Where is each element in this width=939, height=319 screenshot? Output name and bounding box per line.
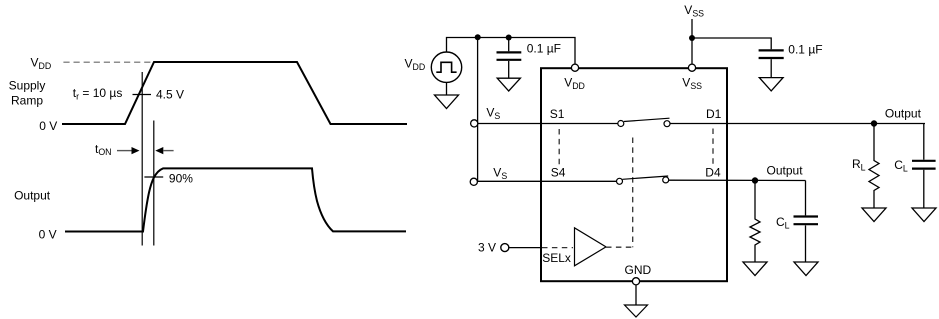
switch S4: [617, 178, 623, 184]
pin VDD: [571, 64, 578, 71]
wire S4 input: [478, 180, 617, 182]
DUT box U1: [541, 68, 727, 281]
svg-text:SELx: SELx: [542, 251, 571, 265]
junction node E: [752, 177, 758, 183]
source V1 VDD pulse generator: [431, 52, 461, 82]
ground (RL): [862, 208, 886, 222]
switch S1: [618, 121, 624, 127]
ground (CL D1): [912, 208, 936, 222]
wire D4 output: [669, 179, 806, 181]
svg-text:90%: 90%: [169, 171, 193, 185]
ground (C2): [759, 78, 783, 91]
junction node B: [506, 35, 512, 41]
svg-text:S4: S4: [551, 166, 566, 180]
90% tick: [144, 176, 163, 178]
svg-text:3 V: 3 V: [478, 241, 496, 255]
resistor RL: [869, 127, 879, 209]
svg-text:4.5 V: 4.5 V: [156, 88, 184, 102]
svg-text:D1: D1: [706, 107, 722, 121]
svg-text:GND: GND: [625, 263, 652, 277]
wire to CL (D4): [805, 181, 807, 216]
VDD level dashed gray line: [63, 61, 152, 63]
svg-text:D4: D4: [705, 166, 721, 180]
resistor R2: [750, 184, 760, 263]
dashed continuation S-side: [558, 129, 560, 165]
svg-text:0 V: 0 V: [39, 228, 57, 242]
wire VDD rail: [447, 38, 576, 65]
junction node D: [871, 120, 877, 126]
junction node C: [689, 35, 695, 41]
pin VSS: [688, 64, 695, 71]
buffer U2 SELx: [575, 228, 607, 266]
svg-text:Output: Output: [767, 164, 804, 178]
reference line 1: [141, 72, 143, 246]
svg-text:Output: Output: [885, 107, 922, 121]
capacitor C2 0.1 uF: [759, 49, 784, 51]
tON left arrow: [117, 150, 132, 152]
wire VS vertical: [477, 38, 479, 182]
capacitor CL (D4): [794, 215, 819, 217]
4.5 V crossing tick: [133, 94, 152, 96]
svg-text:Supply: Supply: [9, 78, 46, 92]
svg-text:S1: S1: [550, 107, 565, 121]
ground (R2): [743, 262, 767, 276]
svg-text:0 V: 0 V: [39, 119, 57, 133]
ground (C1): [497, 78, 520, 91]
terminal VS (S1): [471, 120, 478, 127]
dashed control line vertical: [632, 138, 634, 248]
svg-text:Ramp: Ramp: [11, 94, 43, 108]
wire VSS vertical: [691, 19, 693, 64]
wire D1 output: [670, 123, 925, 125]
output waveform: [65, 168, 406, 231]
capacitor CL (D1): [912, 160, 936, 162]
capacitor C1 0.1 uF: [508, 38, 510, 52]
dashed SELx input: [542, 247, 573, 249]
wire to CL (D1): [923, 124, 925, 160]
reference line 2: [153, 121, 155, 246]
tON right arrow: [155, 147, 163, 154]
ground (CL D4): [794, 262, 818, 276]
wire VSS to C2: [692, 38, 771, 49]
supply ramp waveform: [62, 62, 407, 124]
svg-text:0.1 µF: 0.1 µF: [788, 42, 822, 56]
junction node A: [475, 34, 481, 40]
svg-text:0.1 µF: 0.1 µF: [527, 42, 561, 56]
svg-text:Output: Output: [14, 189, 51, 203]
ground (GND pin): [635, 285, 637, 305]
dashed control line horizontal: [606, 246, 633, 248]
svg-text:tr = 10 µs: tr = 10 µs: [73, 86, 123, 101]
dashed continuation D-side: [712, 129, 714, 168]
pin GND: [632, 278, 639, 285]
ground (VDD source): [446, 82, 448, 95]
terminal 3V: [501, 244, 509, 252]
terminal VS (S4): [470, 178, 477, 185]
wire 3V to SELx: [509, 247, 541, 249]
wire S1 input: [478, 123, 618, 125]
